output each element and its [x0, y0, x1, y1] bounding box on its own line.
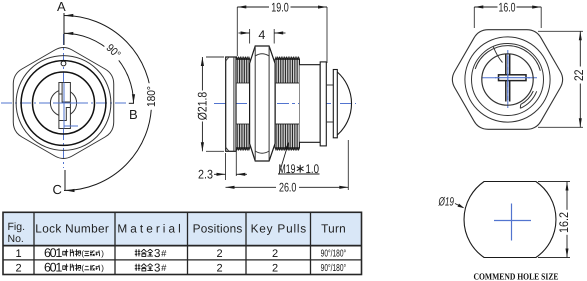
svg-text:16.0: 16.0	[499, 0, 516, 14]
svg-text:3: 3	[154, 248, 160, 260]
svg-text:Lock Number: Lock Number	[35, 222, 109, 236]
dim dia21.8 extension lines	[206, 57, 224, 151]
back view retainer slot bottom	[520, 91, 536, 108]
svg-text:1.0: 1.0	[306, 162, 320, 176]
side view hex nut	[250, 46, 276, 161]
label dia19	[438, 194, 465, 208]
back view body circle	[472, 44, 544, 116]
label A leader line	[63, 13, 65, 45]
front view hex nut outline	[13, 48, 113, 159]
label B tick	[129, 102, 134, 104]
side view thread section left	[236, 57, 250, 150]
front view plug circle	[50, 90, 76, 116]
svg-text:2: 2	[272, 248, 278, 260]
dim 4	[239, 28, 286, 42]
table row1 lock number	[44, 246, 104, 260]
dim 26.0 extension line right	[347, 140, 349, 190]
svg-text:Key Pulls: Key Pulls	[251, 222, 307, 236]
table row1 positions	[216, 248, 222, 260]
side view centerline	[214, 103, 356, 105]
svg-text:A: A	[57, 0, 66, 14]
back view blue cross centerlines	[495, 56, 530, 100]
side view cam shaft	[326, 85, 333, 122]
table header Material	[117, 222, 180, 236]
table row1 turn	[321, 248, 347, 259]
front view chamfer circle	[16, 56, 111, 151]
dim 26.0	[226, 181, 349, 195]
table row2 turn	[321, 263, 347, 274]
dim 22	[572, 31, 586, 127]
hole crosshair	[494, 204, 531, 241]
svg-text:1: 1	[15, 248, 21, 260]
back view key cross horizontal slot	[499, 75, 527, 81]
dim 4 extension lines	[250, 29, 275, 44]
label 90deg	[102, 39, 126, 62]
svg-text:180°: 180°	[146, 86, 158, 107]
svg-text:(: (	[81, 263, 84, 272]
table outer border	[3, 212, 362, 274]
side view dome cap	[337, 72, 351, 135]
svg-text:C: C	[53, 182, 62, 197]
label 180deg	[146, 83, 158, 110]
back view chamfer circle	[465, 37, 550, 122]
back view plug circle	[482, 54, 533, 105]
svg-text:): )	[101, 249, 104, 258]
svg-text:B: B	[129, 107, 138, 122]
svg-text:19.0: 19.0	[271, 1, 289, 15]
front view lock cylinder circle	[33, 72, 95, 134]
svg-text:90°/180°: 90°/180°	[321, 263, 347, 274]
svg-text:26.0: 26.0	[279, 181, 297, 195]
dim 2.3 extension lines	[226, 150, 237, 180]
table row2 key pulls	[272, 262, 278, 274]
table header Positions	[193, 222, 243, 236]
svg-text:Ø19: Ø19	[438, 194, 454, 208]
front view centerline vertical	[63, 34, 65, 168]
dim 16.0 extension lines	[474, 7, 541, 28]
label C leader line	[64, 170, 66, 191]
svg-text:4: 4	[258, 28, 265, 42]
svg-text:): )	[101, 263, 104, 272]
table header Lock Number	[35, 222, 109, 236]
label B	[129, 107, 138, 122]
back view cam spiral transition	[493, 47, 502, 63]
dim 22 extension lines	[538, 31, 583, 127]
dim 19.0	[237, 1, 327, 15]
front view centerline horizontal	[1, 102, 129, 104]
svg-text:2.3: 2.3	[198, 168, 213, 182]
back view centerline vertical	[507, 50, 509, 108]
table row1 material	[135, 248, 167, 260]
table row1 key pulls	[272, 248, 278, 260]
svg-text:COMMEND HOLE SIZE: COMMEND HOLE SIZE	[474, 271, 559, 281]
table column borders	[34, 212, 311, 274]
table row2 fig no	[15, 262, 21, 274]
table header Fig No	[8, 221, 26, 245]
svg-text:#: #	[161, 263, 167, 274]
svg-text:16.2: 16.2	[557, 212, 571, 233]
front view index dot	[61, 61, 66, 66]
back view cam collar arc	[475, 46, 540, 71]
svg-text:3: 3	[154, 262, 160, 274]
table header background	[3, 212, 362, 245]
svg-text:2: 2	[15, 262, 21, 274]
side view button flange	[333, 70, 337, 138]
svg-text:Turn: Turn	[321, 222, 346, 236]
svg-text:(: (	[81, 249, 84, 258]
dim 16.2 extension lines	[538, 182, 570, 258]
svg-text:Fig.: Fig.	[8, 221, 26, 233]
caption commend hole size	[474, 271, 559, 281]
dim 16.2	[557, 182, 571, 258]
table row2 positions	[216, 262, 222, 274]
rotation arc 180deg	[64, 14, 152, 192]
svg-text:2: 2	[216, 262, 222, 274]
svg-text:#: #	[161, 249, 167, 260]
svg-text:601: 601	[44, 260, 62, 274]
svg-text:2: 2	[216, 248, 222, 260]
dim 2.3	[198, 168, 247, 182]
table row2 material	[135, 262, 167, 274]
back view centerline horizontal	[482, 77, 537, 79]
thread callout M19x1.0	[278, 143, 320, 177]
back view hex nut outline	[452, 30, 562, 130]
dim dia21.8	[196, 57, 210, 151]
front view lock face outer circle	[21, 61, 106, 146]
svg-text:No.: No.	[8, 233, 24, 245]
table row1 fig no	[15, 248, 21, 260]
dim 19.0 extension lines	[237, 7, 327, 63]
table row separator	[3, 259, 362, 261]
svg-text:90°/180°: 90°/180°	[321, 248, 347, 259]
side view rear cylinder	[300, 65, 321, 143]
svg-text:22: 22	[572, 69, 586, 81]
side view washer disc	[320, 62, 326, 146]
side view flange	[226, 57, 236, 151]
svg-text:2: 2	[272, 262, 278, 274]
table row2 lock number	[44, 260, 104, 274]
table header Key Pulls	[251, 222, 307, 236]
side view thread section right	[275, 57, 299, 150]
table header separator	[3, 245, 362, 247]
rotation arc 90deg	[64, 32, 136, 103]
svg-text:Ø21.8: Ø21.8	[196, 92, 210, 121]
svg-text:M19: M19	[279, 162, 296, 176]
label C	[53, 182, 62, 197]
back view key cross vertical slot	[506, 54, 510, 102]
hole outline	[464, 182, 556, 258]
dim 16.0	[474, 0, 541, 14]
front view keyway aux centerline	[64, 125, 78, 127]
front view keyway plug	[55, 83, 80, 129]
svg-text:601: 601	[44, 246, 62, 260]
svg-text:Positions: Positions	[193, 222, 243, 236]
svg-text:Material: Material	[117, 222, 180, 236]
label A	[57, 0, 66, 14]
table header Turn	[321, 222, 346, 236]
